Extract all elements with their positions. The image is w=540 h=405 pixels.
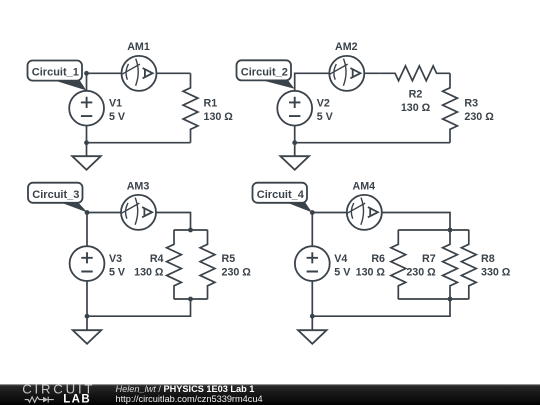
svg-text:5 V: 5 V [334, 266, 351, 278]
svg-text:Helen_lwt / PHYSICS 1E03 Lab 1: Helen_lwt / PHYSICS 1E03 Lab 1 [116, 384, 255, 394]
svg-text:130 Ω: 130 Ω [134, 266, 164, 278]
svg-text:AM3: AM3 [127, 180, 150, 192]
svg-text:R3: R3 [464, 98, 478, 110]
svg-text:R7: R7 [422, 253, 436, 265]
svg-text:AM4: AM4 [353, 180, 376, 192]
svg-text:V3: V3 [109, 253, 122, 265]
svg-text:230 Ω: 230 Ω [464, 111, 494, 123]
svg-text:LAB: LAB [63, 394, 91, 405]
svg-text:Circuit_3: Circuit_3 [32, 189, 79, 201]
svg-text:V4: V4 [334, 253, 347, 265]
svg-text:R2: R2 [409, 89, 423, 101]
svg-text:130 Ω: 130 Ω [356, 266, 386, 278]
svg-text:230 Ω: 230 Ω [222, 266, 252, 278]
svg-text:R5: R5 [222, 253, 236, 265]
svg-text:V2: V2 [317, 98, 330, 110]
svg-text:5 V: 5 V [109, 111, 126, 123]
svg-text:R1: R1 [204, 98, 218, 110]
svg-text:330 Ω: 330 Ω [481, 266, 511, 278]
svg-text:R4: R4 [150, 253, 164, 265]
svg-text:http://circuitlab.com/czn5339r: http://circuitlab.com/czn5339rm4cu4 [116, 394, 263, 404]
svg-text:AM2: AM2 [335, 41, 358, 53]
svg-text:R8: R8 [481, 253, 495, 265]
svg-text:230 Ω: 230 Ω [406, 266, 436, 278]
svg-text:V1: V1 [109, 98, 122, 110]
svg-text:130 Ω: 130 Ω [401, 102, 431, 114]
svg-text:AM1: AM1 [127, 41, 150, 53]
svg-text:Circuit_2: Circuit_2 [241, 66, 288, 78]
svg-text:5 V: 5 V [317, 111, 334, 123]
svg-text:R6: R6 [371, 253, 385, 265]
svg-text:130 Ω: 130 Ω [204, 111, 234, 123]
svg-text:Circuit_4: Circuit_4 [257, 189, 305, 201]
svg-text:5 V: 5 V [109, 266, 126, 278]
svg-text:Circuit_1: Circuit_1 [32, 67, 79, 79]
